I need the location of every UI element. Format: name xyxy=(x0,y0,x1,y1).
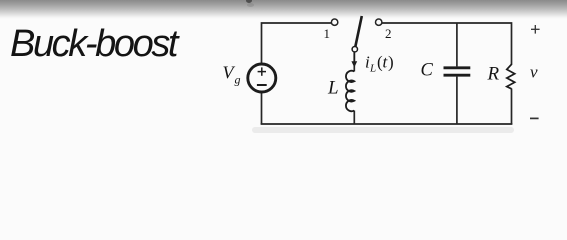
svg-text:v: v xyxy=(530,63,538,82)
output minus terminal xyxy=(530,117,539,119)
wire left rail bottom xyxy=(261,92,263,124)
stray mark top center xyxy=(246,0,252,3)
svg-text:L: L xyxy=(369,63,376,75)
current arrow iL(t) xyxy=(351,53,357,68)
switch pivot xyxy=(352,47,357,52)
svg-text:1: 1 xyxy=(324,26,331,41)
svg-text:g: g xyxy=(235,73,241,87)
svg-text:2: 2 xyxy=(385,26,392,41)
voltage source Vg xyxy=(248,64,276,92)
wire capacitor branch top xyxy=(456,23,458,66)
wire right rail bottom xyxy=(511,89,513,125)
svg-text:L: L xyxy=(327,78,339,99)
output plus terminal xyxy=(531,25,540,34)
switch contact node 1 xyxy=(331,19,337,25)
resistor R zigzag xyxy=(507,64,515,89)
svg-text:C: C xyxy=(421,61,434,81)
wire top-right rail xyxy=(382,23,512,65)
switch contact node 2 xyxy=(376,19,382,25)
wire bottom rail xyxy=(261,123,513,125)
wire inductor branch top xyxy=(353,52,355,72)
wire capacitor branch bottom xyxy=(456,77,458,124)
wire inductor branch bottom xyxy=(353,111,355,125)
capacitor C plates xyxy=(444,68,471,75)
svg-text:): ) xyxy=(388,53,394,72)
inductor L coil xyxy=(346,71,354,111)
wire top-left rail xyxy=(262,23,332,64)
svg-text:R: R xyxy=(487,64,500,85)
switch blade SPDT xyxy=(355,16,362,47)
